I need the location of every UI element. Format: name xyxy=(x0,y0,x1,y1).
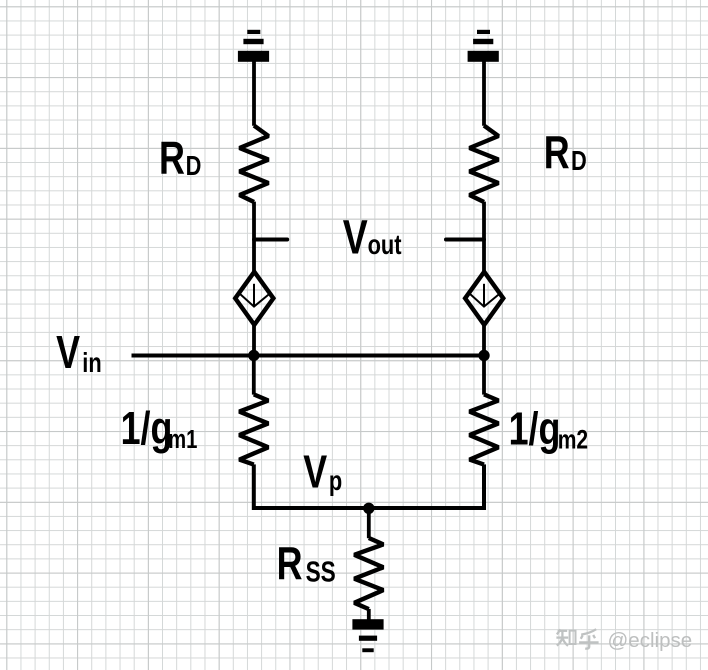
svg-text:m2: m2 xyxy=(558,425,588,455)
resistor RD1 xyxy=(240,126,269,202)
svg-text:1/g: 1/g xyxy=(121,403,173,454)
svg-text:p: p xyxy=(329,465,342,496)
svg-text:D: D xyxy=(186,150,202,181)
svg-text:out: out xyxy=(368,230,402,261)
watermark 知 glyph xyxy=(556,629,575,646)
ground xyxy=(352,619,383,652)
wire supply to RD1 xyxy=(252,62,256,126)
watermark 乎 glyph xyxy=(579,629,599,648)
supply bar (AC ground, right branch top) xyxy=(468,30,499,62)
node dot left (gate node M1) xyxy=(248,350,259,361)
resistor RD2 xyxy=(470,126,499,202)
svg-text:D: D xyxy=(571,145,587,176)
wire bottom U (1/gm1 to Vp rail to 1/gm2) xyxy=(254,464,484,508)
wire RSS to ground xyxy=(367,609,371,620)
wire Vout tap right xyxy=(446,238,484,242)
wire RD2 to source G2 xyxy=(482,202,486,272)
wire Vin node to 1/gm1 xyxy=(252,356,256,395)
svg-text:in: in xyxy=(82,347,101,378)
label RD1 value "RD" xyxy=(159,132,201,183)
label RD2 value "RD" xyxy=(544,127,587,178)
resistor RSS xyxy=(354,538,383,609)
wire Vout tap left xyxy=(254,238,287,242)
svg-text:m1: m1 xyxy=(168,424,197,453)
label node Vp xyxy=(303,446,342,497)
node dot Vp xyxy=(363,503,374,514)
wire supply to RD2 xyxy=(482,62,486,126)
svg-text:1/g: 1/g xyxy=(509,403,561,454)
svg-text:V: V xyxy=(343,211,368,265)
svg-text:V: V xyxy=(303,446,327,497)
supply bar (AC ground, left branch top) xyxy=(238,30,269,62)
svg-text:R: R xyxy=(159,132,185,183)
node dot right (gate node M2) xyxy=(478,350,489,361)
wire Vp to RSS xyxy=(367,508,371,538)
label net Vout xyxy=(343,211,402,265)
svg-text:R: R xyxy=(544,127,570,178)
wire RD1 to source G1 xyxy=(252,202,256,272)
label 1/gm2 value xyxy=(509,403,589,455)
dependent current source G1 xyxy=(235,272,273,325)
svg-text:SS: SS xyxy=(306,555,336,588)
wire Vin (input net) xyxy=(132,354,485,358)
wire G1 to Vin node xyxy=(252,325,256,355)
dependent current source G2 xyxy=(465,272,503,325)
label RSS value xyxy=(277,538,336,589)
wire Vin node to 1/gm2 xyxy=(482,356,486,395)
svg-text:R: R xyxy=(277,538,303,589)
label net Vin xyxy=(56,327,102,379)
resistor 1/gm1 xyxy=(239,394,268,464)
wire G2 to Vin node xyxy=(482,325,486,355)
label 1/gm1 value xyxy=(121,403,198,454)
svg-text:V: V xyxy=(56,327,80,378)
svg-text:@eclipse: @eclipse xyxy=(608,629,693,652)
resistor 1/gm2 xyxy=(470,394,499,464)
